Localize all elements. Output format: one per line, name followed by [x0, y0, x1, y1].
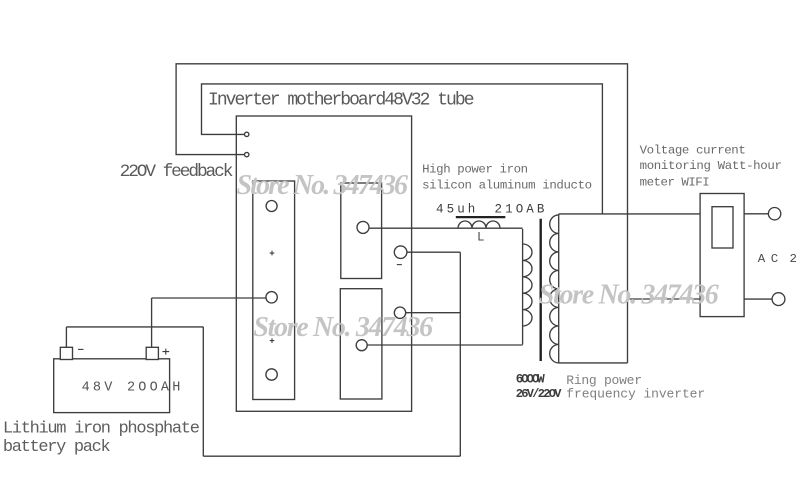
- svg-text:21OAB: 21OAB: [495, 203, 548, 217]
- svg-text:silicon aluminum inducto: silicon aluminum inducto: [422, 179, 592, 193]
- svg-text:Store No. 347436: Store No. 347436: [253, 312, 433, 343]
- svg-text:frequency inverter: frequency inverter: [566, 387, 705, 402]
- svg-text:battery pack: battery pack: [3, 438, 111, 457]
- svg-text:22OV feedback: 22OV feedback: [120, 162, 234, 182]
- svg-text:Inverter motherboard48V32 tube: Inverter motherboard48V32 tube: [208, 91, 475, 111]
- svg-text:A: A: [758, 252, 766, 266]
- svg-text:Voltage current: Voltage current: [640, 144, 746, 158]
- svg-text:Store No. 347436: Store No. 347436: [539, 280, 719, 311]
- svg-text:48V: 48V: [82, 381, 116, 396]
- svg-text:Lithium iron phosphate: Lithium iron phosphate: [3, 420, 200, 439]
- svg-text:monitoring Watt-hour: monitoring Watt-hour: [640, 159, 782, 173]
- svg-text:meter WIFI: meter WIFI: [640, 176, 710, 190]
- svg-text:45uh: 45uh: [436, 203, 478, 217]
- svg-text:L: L: [477, 230, 485, 244]
- svg-text:6OOOW: 6OOOW: [516, 372, 546, 386]
- svg-text:C: C: [771, 252, 778, 266]
- svg-text:2OOAH: 2OOAH: [127, 381, 184, 396]
- svg-text:26V/22OV: 26V/22OV: [516, 387, 562, 401]
- svg-text:Store No. 347436: Store No. 347436: [237, 170, 409, 201]
- svg-text:High power iron: High power iron: [422, 162, 528, 176]
- svg-text:2: 2: [790, 252, 797, 266]
